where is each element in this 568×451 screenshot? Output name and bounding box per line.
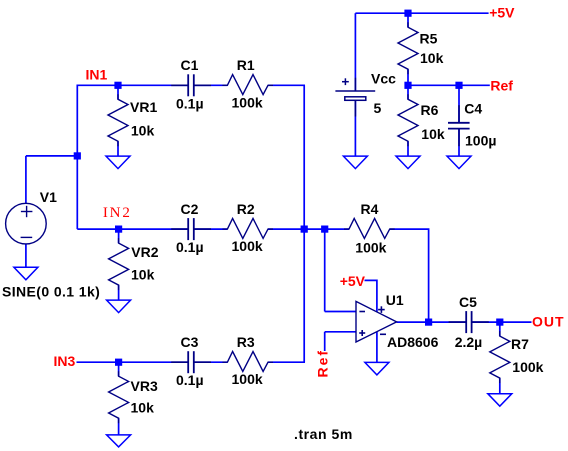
- svg-text:VR2: VR2: [131, 244, 158, 260]
- resistor VR2: [109, 238, 129, 290]
- svg-text:100k: 100k: [232, 94, 263, 110]
- svg-text:10k: 10k: [131, 400, 155, 416]
- ground VR2: [107, 300, 131, 313]
- svg-text:100k: 100k: [232, 371, 263, 387]
- wire summing bus vertical: [303, 85, 305, 362]
- wire inverting tap vertical: [324, 229, 326, 311]
- resistor R7: [490, 331, 510, 383]
- svg-text:R2: R2: [237, 201, 255, 217]
- resistor R5: [398, 22, 418, 74]
- svg-text:IN3: IN3: [54, 353, 76, 369]
- wire R3 to bus: [268, 361, 305, 363]
- op-amp U1: [356, 301, 397, 342]
- battery Vcc: [335, 78, 375, 117]
- ground R6: [396, 156, 420, 169]
- svg-text:100µ: 100µ: [465, 133, 496, 149]
- svg-text:R4: R4: [361, 201, 379, 217]
- wire R2 to R4: [268, 228, 349, 230]
- wire battery top lead: [354, 13, 356, 91]
- wire IN3 row left: [77, 361, 189, 363]
- svg-text:SINE(0 0.1 1k): SINE(0 0.1 1k): [2, 283, 100, 299]
- wire VR2 top lead: [118, 229, 120, 243]
- wire V1 top vertical: [25, 156, 27, 204]
- wire battery bottom lead: [354, 100, 356, 156]
- svg-text:Vcc: Vcc: [371, 71, 396, 87]
- wire C1 to R1: [194, 84, 228, 86]
- svg-text:0.1µ: 0.1µ: [176, 372, 204, 388]
- wire C4 top lead: [458, 85, 460, 123]
- svg-text:Ref: Ref: [490, 77, 513, 93]
- svg-text:10k: 10k: [420, 50, 444, 66]
- ground VR3: [107, 435, 131, 447]
- wire opamp V- to ground: [376, 332, 378, 362]
- wire R7 bottom lead: [499, 378, 501, 394]
- svg-text:IN2: IN2: [103, 205, 132, 221]
- wire C3 to R3: [194, 361, 228, 363]
- svg-text:10k: 10k: [421, 126, 445, 142]
- wire IN1 row left: [77, 84, 188, 86]
- svg-text:Ref: Ref: [315, 349, 331, 378]
- ground V1: [14, 267, 38, 280]
- svg-text:R7: R7: [511, 336, 529, 352]
- svg-text:R5: R5: [420, 30, 438, 46]
- junction summing bus: [301, 226, 308, 233]
- wire OUT junction to OUT label: [500, 321, 532, 323]
- svg-text:AD8606: AD8606: [387, 334, 439, 350]
- svg-text:100k: 100k: [512, 359, 543, 375]
- resistor R3: [222, 352, 273, 372]
- junction C4/Ref: [455, 82, 462, 89]
- capacitor C5: [449, 311, 489, 333]
- ground op-amp: [365, 362, 389, 375]
- svg-text:C3: C3: [181, 334, 199, 350]
- junction R5/R6/Ref: [404, 82, 411, 89]
- wire to non-inverting input: [325, 331, 357, 333]
- capacitor C3: [171, 351, 211, 373]
- svg-text:C4: C4: [464, 101, 482, 117]
- svg-text:R6: R6: [421, 102, 439, 118]
- voltage source V1: [6, 203, 47, 244]
- svg-text:100k: 100k: [232, 238, 263, 254]
- wire Ref row: [408, 84, 490, 86]
- svg-text:R1: R1: [237, 57, 255, 73]
- svg-text:V1: V1: [40, 189, 57, 205]
- resistor VR1: [108, 94, 128, 146]
- junction IN1/VR1: [114, 82, 121, 89]
- resistor VR3: [109, 371, 129, 423]
- junction IN2/VR2: [115, 226, 122, 233]
- svg-text:10k: 10k: [131, 123, 155, 139]
- svg-text:+5V: +5V: [489, 5, 515, 21]
- junction IN3/VR3: [115, 359, 122, 366]
- ground VR1: [106, 156, 130, 169]
- svg-text:OUT: OUT: [532, 313, 565, 329]
- wire R1 to bus corner: [268, 84, 305, 86]
- resistor R2: [222, 218, 273, 238]
- svg-text:+5V: +5V: [340, 273, 366, 289]
- wire R5 bottom lead: [407, 69, 409, 85]
- ground R7: [488, 394, 512, 407]
- wire to inverting input: [325, 311, 357, 313]
- wire opamp output: [397, 321, 467, 323]
- wire R4 to feedback corner: [390, 229, 429, 322]
- wire left vertical IN1 to IN2: [76, 85, 78, 230]
- wire C4 bottom lead: [458, 129, 460, 157]
- svg-text:C1: C1: [181, 57, 199, 73]
- svg-text:0.1µ: 0.1µ: [176, 239, 204, 255]
- wire VR3 bottom lead: [118, 418, 120, 435]
- junction top rail R5: [404, 10, 411, 17]
- wire R7 top lead: [499, 322, 501, 336]
- capacitor C2: [171, 218, 211, 240]
- svg-text:C5: C5: [459, 294, 477, 310]
- svg-text:100k: 100k: [355, 240, 386, 256]
- junction OUT/R7: [496, 319, 503, 326]
- capacitor C1: [171, 74, 211, 96]
- resistor R1: [222, 75, 273, 95]
- wire V1 bottom to ground: [25, 244, 27, 268]
- wire +5V to opamp V+: [365, 280, 377, 312]
- resistor R6: [398, 94, 418, 146]
- ground battery: [343, 156, 367, 169]
- svg-text:.tran 5m: .tran 5m: [294, 426, 353, 442]
- wire IN2 row left: [77, 228, 188, 230]
- wire R5 top lead: [407, 13, 409, 27]
- wire V1 top horizontal: [26, 155, 77, 157]
- wire C2 to R2: [194, 228, 228, 230]
- svg-text:2.2µ: 2.2µ: [455, 334, 483, 350]
- svg-text:IN1: IN1: [86, 67, 108, 83]
- resistor R4: [344, 218, 395, 238]
- svg-text:0.1µ: 0.1µ: [176, 95, 204, 111]
- wire non-inverting to Ref label: [324, 332, 326, 351]
- capacitor C4: [448, 105, 470, 146]
- junction opamp output/feedback: [425, 319, 432, 326]
- svg-text:VR3: VR3: [131, 378, 158, 394]
- svg-text:U1: U1: [386, 292, 404, 308]
- svg-text:10k: 10k: [131, 266, 155, 282]
- junction inverting tap: [321, 226, 328, 233]
- ground C4: [447, 156, 471, 169]
- wire +5V top rail: [355, 12, 488, 14]
- wire R6 bottom lead: [407, 141, 409, 156]
- svg-text:C2: C2: [181, 201, 199, 217]
- wire VR1 top lead: [117, 85, 119, 99]
- wire VR2 bottom lead: [118, 285, 120, 300]
- wire VR3 top lead: [118, 362, 120, 376]
- junction V1/left bus: [74, 152, 81, 159]
- svg-text:R3: R3: [237, 334, 255, 350]
- svg-text:5: 5: [374, 100, 382, 116]
- svg-text:VR1: VR1: [130, 99, 157, 115]
- wire VR1 bottom lead: [117, 141, 119, 156]
- wire C5 to OUT junction: [472, 321, 500, 323]
- wire R6 top lead: [407, 85, 409, 99]
